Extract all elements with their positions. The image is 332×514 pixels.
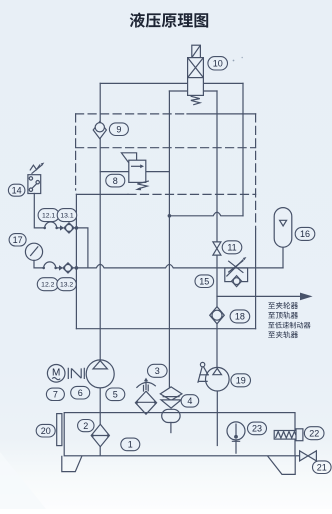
drain valve 21 [295,451,316,461]
manifold dashed box right edge [255,114,257,229]
photo light wedge bottom-left [0,452,46,509]
label 14 [8,184,25,196]
pressure reducing valve V8 [121,153,148,190]
pressure switch S14 [28,163,44,194]
label 17 [9,234,26,246]
svg-text:18: 18 [235,312,245,322]
label 15 [195,275,214,288]
svg-text:5: 5 [113,390,118,400]
check valve V9 [93,122,106,139]
label 8 [106,174,125,187]
label 22 [304,427,324,440]
label 21 [313,461,332,474]
wire 13.1 line y=227.9 [57,228,88,268]
oil tank [64,413,295,456]
label 6 [71,386,90,399]
label 7 [46,388,64,400]
label 16 [295,227,315,240]
svg-text:M: M [52,367,60,378]
suction strainer 2 [91,424,109,446]
heater 22 [274,429,303,441]
svg-text:13.2: 13.2 [60,282,73,289]
svg-text:2: 2 [83,421,88,431]
specks [233,60,235,62]
svg-text:12.2: 12.2 [41,282,54,289]
svg-text:3: 3 [155,366,160,376]
tank right leg [267,456,295,475]
wire accumulator drop [282,247,284,268]
svg-text:21: 21 [317,462,327,472]
check valve V18 [210,307,225,324]
check valve 13.1 [60,223,74,233]
wire valve8 line y=171.6 [100,171,169,173]
svg-text:22: 22 [309,428,319,438]
tank left leg [62,456,82,472]
wire hand pump suction [216,391,218,446]
wire valve10 lower ports y=91 [169,90,217,92]
label 9 [109,123,128,136]
label 5 [106,388,125,401]
wire vertical x=169.4 [168,91,170,387]
svg-text:15: 15 [199,276,209,286]
check valve 13.2 [59,263,73,273]
label 12.1 [38,209,59,222]
wire return filter drop [170,423,172,433]
svg-text:13.1: 13.1 [60,213,73,220]
svg-text:8: 8 [113,176,118,186]
solenoid valve U10 [188,45,204,105]
svg-text:19: 19 [236,376,246,386]
wire vertical x=243 [242,83,244,215]
svg-text:7: 7 [53,390,58,400]
wire top header y=83.4 [100,82,243,84]
outlet arrow [300,293,313,301]
label 4 [181,395,199,407]
motor M7 [47,365,65,383]
svg-text:20: 20 [41,426,51,436]
svg-text:23: 23 [252,424,262,434]
pressure gauge G17 [25,243,42,260]
junction dot 13.2 [75,266,79,270]
wire vertical x=217 [216,91,218,367]
junction dot 13.1 [75,226,79,230]
label 13.1 [57,209,76,222]
title [130,13,145,28]
hose 12.2 [42,262,57,269]
manifold dashed box left edge [75,114,77,190]
manifold dashed mid line 2 [76,193,128,195]
wire outlet arrow line y=296.4 [217,295,300,297]
svg-text:1: 1 [128,440,133,450]
air breather 3 [135,378,156,415]
label 23 [248,422,267,435]
wire gauge drop [34,260,44,268]
svg-text:14: 14 [12,185,22,195]
accumulator A16 [274,208,292,248]
label 11 [222,241,242,254]
wire 13.2 line y=267.9 with crossovers [56,264,283,268]
wire right return vertical x=255.6 [255,229,257,329]
label 2 [78,420,94,432]
wire left return vertical x=76.4 [75,194,77,328]
label 20 [36,424,55,437]
svg-text:6: 6 [78,388,83,398]
manifold dashed box top edge [76,113,187,115]
label 19 [231,374,251,387]
outlet text lines [268,302,275,308]
label 18 [230,310,250,323]
svg-text:17: 17 [13,235,23,245]
junction dot y215.8 [168,214,172,218]
wire tank return line y=328.7 [76,328,255,330]
throttle check valve V15 [225,257,248,287]
svg-text:9: 9 [116,124,121,134]
wire pump discharge vertical x=100 [99,83,101,360]
shutoff valve V11 [213,242,221,255]
manifold dashed mid line 1 [76,147,256,149]
wire pressure-switch drop x=34.3 [34,194,44,228]
wire horizontal y=215.8 with crossover [169,212,243,216]
svg-text:10: 10 [213,59,223,69]
return filter 4 [160,387,182,408]
svg-text:16: 16 [300,229,310,239]
label 10 [208,57,228,70]
coupling 6 [68,368,84,379]
return filter 4 tank flange [162,409,180,422]
label 12.2 [37,278,58,291]
label 1 [121,438,140,451]
svg-text:4: 4 [187,396,192,406]
hand pump P19 [198,362,229,391]
thermometer 23 [227,422,245,454]
label 13.2 [57,278,77,291]
label 3 [148,364,168,377]
svg-text:11: 11 [227,243,236,253]
level gauge 20 [57,414,62,446]
wire pump suction [99,388,101,455]
svg-text:12.1: 12.1 [42,213,55,220]
main pump P5 [86,360,114,388]
hose 12.1 [43,222,58,229]
